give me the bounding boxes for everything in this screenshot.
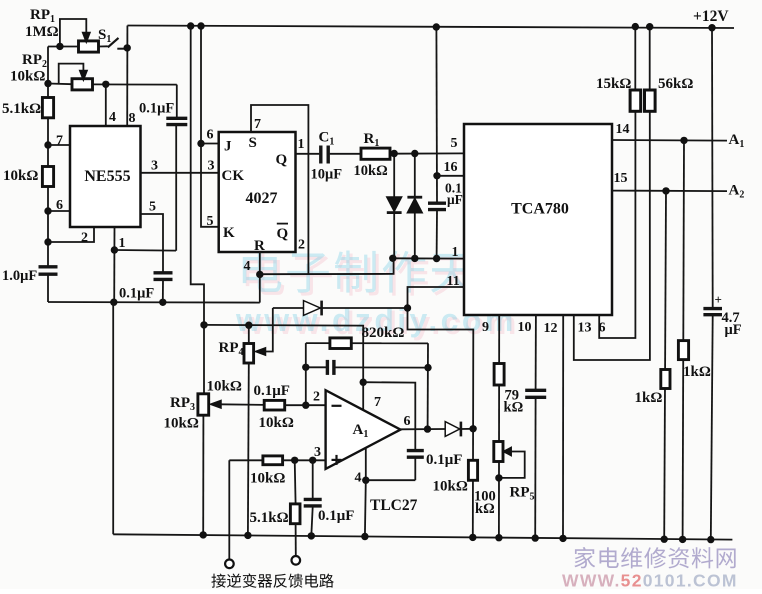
wire pin3 line + resistor 10k	[229, 459, 263, 461]
svg-text:K: K	[223, 225, 235, 241]
wire S1 contact to +12V rail and NE555 pin 8	[126, 26, 128, 127]
svg-text:3: 3	[208, 158, 215, 173]
wire ground link down	[112, 302, 114, 534]
node pin6	[44, 207, 51, 214]
node pin7	[44, 141, 51, 148]
potentiometer RP5	[494, 442, 503, 462]
svg-text:kΩ: kΩ	[475, 501, 495, 517]
RP1 wiper	[60, 19, 86, 46]
wire pin7 V+	[363, 382, 415, 449]
wire pin6 to 15k	[599, 111, 635, 338]
wire pin13 to 56k	[574, 111, 650, 360]
ground junctions	[200, 531, 207, 538]
svg-text:6: 6	[404, 414, 411, 429]
wire pin9 + resistor 79k + RP5	[498, 315, 500, 538]
wire inverting node	[305, 343, 307, 405]
wire RP3 bottom to ground rail	[202, 415, 204, 535]
wire diode anode to RP4 wiper	[259, 308, 273, 352]
IC 4027	[219, 132, 296, 252]
wire RP3 wiper + capacitor 0.1uF + resistor 10k to pin2	[220, 403, 265, 406]
svg-text:16: 16	[444, 160, 458, 175]
svg-text:Q: Q	[277, 226, 289, 242]
label feedback chinese	[211, 573, 333, 587]
wire NE555 pin 2	[48, 227, 94, 242]
potentiometer RP1 1M	[48, 46, 79, 48]
node J tap	[197, 140, 204, 147]
svg-text:56kΩ: 56kΩ	[658, 76, 693, 92]
ground rail upper	[48, 301, 260, 304]
left timing rail	[47, 47, 49, 267]
svg-text:0.1μF: 0.1μF	[119, 286, 154, 302]
svg-text:J: J	[224, 139, 232, 155]
resistor 10k timing	[42, 167, 53, 187]
bottom ground rail	[113, 534, 732, 539]
svg-text:R: R	[254, 238, 265, 254]
node R	[256, 271, 263, 278]
svg-text:5: 5	[149, 200, 156, 215]
wire pin10 + capacitor 0.1uF	[535, 315, 537, 389]
svg-text:μF: μF	[447, 192, 463, 207]
output line pin6	[401, 428, 446, 430]
node op-amp V+	[360, 379, 367, 386]
svg-text:1kΩ: 1kΩ	[683, 364, 711, 380]
diode output	[445, 422, 460, 437]
wire J pin	[201, 143, 219, 145]
capacitor 4.7uF electrolytic	[711, 28, 714, 308]
svg-text:CK: CK	[222, 168, 245, 184]
svg-text:820kΩ: 820kΩ	[362, 325, 405, 341]
svg-text:1kΩ: 1kΩ	[635, 390, 663, 406]
svg-text:2: 2	[81, 231, 88, 246]
diode D2 clamp	[414, 154, 416, 259]
svg-text:6: 6	[56, 198, 63, 213]
svg-text:1: 1	[119, 236, 126, 251]
node NE555 pin4	[102, 81, 109, 88]
svg-text:10kΩ: 10kΩ	[433, 479, 468, 495]
svg-text:+12V: +12V	[693, 8, 729, 25]
svg-text:10kΩ: 10kΩ	[250, 471, 285, 487]
svg-text:1: 1	[298, 137, 305, 152]
wire pin15 to A2	[612, 190, 727, 193]
svg-text:4: 4	[109, 110, 116, 125]
svg-text:9: 9	[482, 320, 489, 335]
wire +12V rail down to J-K	[201, 26, 219, 227]
svg-text:7: 7	[374, 395, 381, 410]
RP2 wiper	[59, 64, 84, 84]
wire S pin7 loop to ground	[251, 105, 308, 274]
svg-text:1: 1	[452, 245, 459, 260]
wire NE555 pin 1	[113, 227, 115, 302]
svg-text:6: 6	[207, 128, 214, 143]
ground line TCA780 pin1	[393, 257, 464, 259]
resistor 1k on A2	[664, 191, 666, 539]
svg-text:WWW.520101.COM: WWW.520101.COM	[562, 571, 738, 590]
svg-text:5.1kΩ: 5.1kΩ	[250, 510, 289, 526]
node S1 contact	[124, 44, 131, 51]
potentiometer RP3	[198, 394, 209, 415]
wire pin4	[365, 448, 367, 480]
svg-text:2: 2	[313, 390, 320, 405]
resistor R1 10k	[361, 148, 390, 159]
svg-text:10kΩ: 10kΩ	[164, 416, 199, 432]
wire 1.0uF bottom to ground rail	[47, 275, 49, 302]
resistor 820k feedback	[306, 342, 428, 344]
svg-text:5: 5	[207, 214, 214, 229]
capacitor 1.0uF	[39, 265, 58, 268]
svg-text:Q: Q	[276, 152, 288, 168]
wire pin16	[437, 175, 464, 177]
resistor 10k output to ground	[472, 429, 474, 538]
op-amp A1 TLC27	[326, 390, 401, 469]
svg-text:1.0μF: 1.0μF	[2, 268, 37, 284]
diode RP4 clamp	[273, 307, 408, 309]
wire NE555 pin3 to 4027 CK	[141, 172, 219, 174]
wire +12V branch to op-amp pin7 riser	[204, 325, 363, 410]
wire pin14 to A1	[612, 139, 727, 142]
svg-text:10kΩ: 10kΩ	[3, 168, 38, 184]
wire +12V down-left branch with jog	[191, 26, 204, 394]
wire R pin4	[259, 252, 261, 274]
wire NE555 pin 7	[48, 144, 70, 146]
resistor 56k	[649, 27, 651, 90]
wire Q pin1 output	[296, 153, 320, 155]
svg-text:8: 8	[129, 111, 136, 126]
resistor 5.1k to terminal 2	[294, 460, 297, 504]
svg-text:5.1kΩ: 5.1kΩ	[2, 101, 41, 117]
svg-text:1MΩ: 1MΩ	[25, 24, 59, 40]
svg-text:7: 7	[56, 134, 63, 149]
svg-text:12: 12	[544, 321, 558, 336]
svg-text:kΩ: kΩ	[504, 400, 524, 416]
ground stub NE555 pin1 to bypass cap	[114, 249, 176, 252]
svg-text:0.1μF: 0.1μF	[318, 508, 354, 524]
watermark center line1	[246, 253, 525, 295]
svg-text:2: 2	[298, 238, 305, 253]
IC NE555	[70, 126, 141, 227]
resistor 15k	[634, 27, 636, 90]
svg-text:0.1μF: 0.1μF	[254, 383, 290, 399]
diode D1 clamp	[393, 154, 395, 259]
svg-text:10kΩ: 10kΩ	[354, 163, 388, 179]
wire NE555 pin 5 + capacitor 0.1uF	[141, 214, 164, 272]
svg-text:0.1μF: 0.1μF	[139, 101, 174, 117]
node +12V branch	[200, 321, 207, 328]
wire R/S ground link	[260, 258, 394, 274]
svg-text:NE555: NE555	[84, 168, 130, 185]
wire +12V to pin16, capacitor 0.1uF	[435, 27, 438, 202]
svg-text:10kΩ: 10kΩ	[10, 69, 45, 85]
capacitor C1 10uF	[319, 146, 322, 164]
capacitor 0.1uF pin3	[312, 460, 314, 498]
svg-text:+: +	[715, 292, 722, 307]
resistor 1k on A1	[683, 140, 684, 539]
svg-text:0.1μF: 0.1μF	[426, 452, 462, 468]
svg-text:3: 3	[151, 158, 158, 173]
svg-text:11: 11	[447, 274, 460, 289]
svg-text:S: S	[249, 135, 257, 151]
svg-text:6: 6	[599, 320, 606, 335]
svg-text:4: 4	[355, 471, 362, 486]
wire R node to rail	[259, 274, 261, 302]
wire pin11 to clamp/opamp diode	[408, 287, 474, 429]
svg-text:10kΩ: 10kΩ	[207, 379, 242, 395]
svg-text:TCA780: TCA780	[511, 201, 569, 218]
svg-text:10kΩ: 10kΩ	[259, 415, 294, 431]
IC TCA780	[464, 124, 612, 315]
svg-text:15: 15	[614, 171, 628, 186]
wire NE555 pin 4	[105, 84, 107, 126]
svg-text:3: 3	[314, 445, 321, 460]
svg-text:15kΩ: 15kΩ	[596, 76, 631, 92]
potentiometer RP2 10k	[44, 80, 51, 87]
svg-text:14: 14	[616, 122, 630, 137]
capacitor 0.1uF bypass	[176, 85, 178, 118]
capacitor feedback	[306, 366, 327, 368]
watermark bottom right chinese	[574, 547, 735, 568]
+12V top rail	[127, 26, 734, 29]
resistor 5.1k	[42, 98, 53, 118]
node pin1/ground	[111, 246, 118, 253]
svg-text:TLC27: TLC27	[370, 497, 418, 514]
node pin2	[44, 238, 51, 245]
wire pin12	[562, 315, 564, 538]
node +12V rail x190	[187, 22, 194, 29]
svg-text:13: 13	[578, 320, 592, 335]
wire R1 to TCA780 pin5	[390, 152, 464, 154]
svg-text:4: 4	[244, 259, 251, 274]
svg-text:4027: 4027	[246, 190, 278, 207]
potentiometer RP4	[245, 322, 252, 329]
svg-text:μF: μF	[725, 322, 742, 338]
svg-text:5: 5	[451, 136, 458, 151]
svg-text:10: 10	[518, 320, 532, 335]
svg-text:7: 7	[254, 117, 261, 132]
wire pin2	[306, 404, 326, 406]
wire 820k right leg	[427, 343, 429, 429]
terminal circle 1	[228, 460, 230, 559]
capacitor 0.1uF pin7-pin4	[407, 449, 424, 452]
svg-text:10μF: 10μF	[311, 167, 343, 183]
wire NE555 pin 6	[48, 210, 70, 212]
